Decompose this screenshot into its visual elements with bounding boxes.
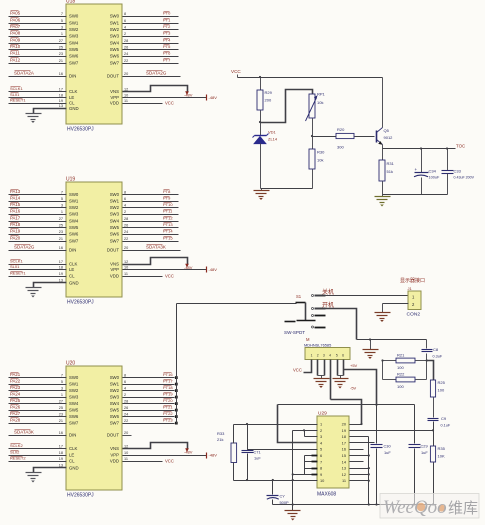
svg-text:SL02: SL02 [10,449,20,454]
svg-text:SW0: SW0 [110,375,120,380]
svg-text:RP1: RP1 [317,92,326,97]
svg-text:SW2: SW2 [110,205,120,210]
svg-text:SW0: SW0 [69,14,79,19]
svg-text:R31: R31 [387,161,395,166]
svg-text:PA08: PA08 [10,30,21,35]
wire guanji to CON2 pin1 [315,295,409,297]
svg-text:DOUT: DOUT [107,74,120,79]
U18 VNS wire pin 12 with -48V arrow [123,86,188,93]
svg-text:R29: R29 [265,90,273,95]
svg-text:9012: 9012 [384,135,394,140]
U29 pin5 wire [248,449,318,451]
module pin 1 wire to VCC [304,360,312,373]
svg-text:SW2: SW2 [69,205,79,210]
svg-text:RESET2: RESET2 [10,455,26,460]
svg-text:22: 22 [124,237,128,241]
svg-text:PT12: PT12 [163,215,173,220]
svg-text:SW4: SW4 [69,401,79,406]
svg-text:9: 9 [320,472,322,477]
svg-text:19: 19 [59,457,63,461]
svg-text:SW7: SW7 [110,421,120,426]
junction C9 MAX pin19 row [432,429,434,431]
svg-text:27: 27 [59,39,63,43]
svg-text:SDATA3K: SDATA3K [14,429,34,434]
svg-text:SW5: SW5 [110,47,120,52]
svg-text:100: 100 [397,384,404,389]
svg-text:21: 21 [59,59,63,63]
U20 CLK LE CL wires pins 17 18 19 [9,448,67,450]
svg-text:PT7: PT7 [163,57,171,62]
svg-text:6: 6 [124,380,126,384]
svg-text:SW3: SW3 [69,212,79,217]
svg-text:12: 12 [124,444,128,448]
junction C8 R21 [426,359,428,361]
svg-text:PT1: PT1 [163,17,171,22]
switch right contacts [312,295,314,297]
svg-text:VCC: VCC [165,458,174,463]
U19 ground symbol [26,287,42,289]
svg-text:VNS: VNS [110,89,119,94]
module pin 4 wire down to MAX pin20 net [330,360,332,400]
svg-text:16: 16 [59,72,63,76]
U18 left input wires [9,16,67,18]
svg-text:16: 16 [59,246,63,250]
svg-text:CL: CL [69,101,75,106]
svg-text:25: 25 [59,406,63,410]
svg-text:CL: CL [69,274,75,279]
svg-text:13: 13 [342,466,346,471]
svg-text:4: 4 [124,203,126,207]
svg-text:1: 1 [61,32,63,36]
svg-text:SW3: SW3 [110,34,120,39]
svg-text:1: 1 [61,393,63,397]
svg-text:SW7: SW7 [69,61,79,66]
U18 VPP wire pin 10 with -48V power bar [123,97,207,99]
svg-text:SW3: SW3 [69,34,79,39]
capacitor C30 1uF on +5V branch [376,405,378,444]
svg-text:SW2: SW2 [69,388,79,393]
svg-text:23: 23 [59,230,63,234]
svg-text:-5V: -5V [350,386,357,391]
svg-text:28: 28 [124,39,128,43]
U29 pin1 wire from R33 node [234,424,318,426]
svg-text:24: 24 [124,230,128,234]
svg-text:PA09: PA09 [10,37,21,42]
U18 GND wire pin 13 [34,109,67,114]
svg-text:SW4: SW4 [69,219,79,224]
svg-text:SDATA2A: SDATA2A [14,70,34,75]
svg-text:5: 5 [61,19,63,23]
wire +5V rail horizontal [278,404,415,406]
svg-text:6: 6 [342,354,344,358]
svg-text:22: 22 [124,419,128,423]
svg-text:VNS: VNS [110,262,119,267]
svg-text:SDATA3K: SDATA3K [146,244,166,249]
wire -5V to MAX pin 20 [331,400,362,425]
svg-text:SW2: SW2 [69,27,79,32]
svg-text:SW3: SW3 [110,212,120,217]
svg-text:R21: R21 [397,353,405,358]
svg-text:VCC: VCC [293,368,302,373]
svg-text:25: 25 [59,223,63,227]
wire down to R35 [433,431,435,447]
svg-text:C8: C8 [433,347,439,352]
svg-text:LE: LE [69,453,74,458]
svg-text:PT11: PT11 [163,208,173,213]
svg-text:SW4: SW4 [110,401,120,406]
svg-text:R25: R25 [438,380,446,385]
U29 right pin20 wire [350,424,362,426]
wire +5V rail down to MAX pin4 [278,405,318,443]
ground at CON2 pin2 [382,304,384,313]
step wire R29 node to RP1 top [261,90,313,123]
node R29 top [259,76,261,78]
svg-text:18: 18 [59,93,63,97]
svg-text:SW3: SW3 [110,395,120,400]
svg-text:1: 1 [311,354,313,358]
ground at bottom rail [292,505,294,511]
svg-text:PA17: PA17 [10,215,21,220]
svg-text:SW7: SW7 [110,239,120,244]
svg-text:M: M [306,337,310,342]
wire ground to CON2 pin2 [383,303,409,305]
svg-text:SW2: SW2 [110,27,120,32]
svg-text:SW4: SW4 [69,41,79,46]
svg-text:SW6: SW6 [110,232,120,237]
wire kaiji to regulator area [315,309,357,340]
svg-text:SW1: SW1 [69,21,79,26]
svg-text:2: 2 [124,393,126,397]
output wire TOC [383,148,456,150]
U20 DIN wire pin 16 [9,435,67,437]
U19 VNS wire pin 12 with -48V arrow [123,258,188,265]
svg-text:3: 3 [61,203,63,207]
potentiometer RP1 10k [309,94,315,118]
svg-text:-48V: -48V [209,452,218,457]
U20 VPP wire pin 10 with -48V power bar [123,455,207,457]
svg-text:SW6: SW6 [69,232,79,237]
svg-text:PT19: PT19 [163,391,173,396]
U19 right output wires [123,194,179,196]
svg-text:GND: GND [69,466,79,471]
svg-text:2: 2 [317,354,319,358]
svg-text:12: 12 [124,87,128,91]
svg-text:MAX608: MAX608 [317,492,336,498]
svg-text:10k: 10k [317,100,323,105]
svg-text:维库: 维库 [448,500,478,517]
U18 VDD wire pin 11 with VCC label [123,103,163,105]
svg-text:1uF: 1uF [384,450,391,455]
svg-text:12: 12 [124,260,128,264]
U29 right pin15 wire [350,455,369,457]
svg-text:13: 13 [59,104,63,108]
svg-text:15: 15 [342,453,346,458]
resistor R29 200 [257,90,263,110]
svg-text:SW5: SW5 [69,225,79,230]
U29 right pin12 wire [350,474,369,476]
svg-text:6: 6 [124,19,126,23]
module ground A [314,378,330,380]
svg-text:C29: C29 [421,444,428,449]
svg-text:SW0: SW0 [69,375,79,380]
svg-text:PA14: PA14 [10,195,21,200]
resistor R30 10k [309,149,315,169]
svg-text:-48V: -48V [209,267,218,272]
svg-text:11: 11 [124,99,128,103]
U29 right pin18 wire to collector vertical [350,436,369,438]
WeeQoo watermark [380,494,479,519]
svg-text:27: 27 [59,217,63,221]
svg-text:关机: 关机 [322,288,334,296]
U20 right output wires [123,377,175,379]
svg-text:3: 3 [61,386,63,390]
U29 pin 2 wire [293,430,318,432]
svg-text:5: 5 [61,197,63,201]
svg-text:HV26530PJ: HV26530PJ [67,300,94,306]
wire R30 to bottom rail [312,170,314,189]
U29 right pin13 wire [350,468,369,470]
svg-text:DOUT: DOUT [107,248,120,253]
svg-text:ZL14: ZL14 [268,137,278,142]
svg-text:SW1: SW1 [110,21,120,26]
svg-text:SW0: SW0 [69,192,79,197]
svg-text:SW7: SW7 [69,239,79,244]
U19 DIN wire pin 16 [9,250,67,252]
svg-text:17: 17 [59,87,63,91]
svg-text:SDATA2G: SDATA2G [146,70,167,75]
U29 right pin11 wire [350,480,369,482]
capacitor C9 0.1uF [428,418,439,420]
capacitor C33 0.43uF 200V [447,149,449,171]
svg-text:WeeQoo: WeeQoo [383,497,447,518]
wire R29 to VD1 node [260,111,262,136]
U18 right output wires [123,16,179,18]
svg-text:SW0: SW0 [110,14,120,19]
svg-text:PT0: PT0 [163,10,171,15]
svg-text:DIN: DIN [69,248,76,253]
wire kaiji horizontal to C8 branch [357,339,427,341]
U20 GND wire pin 13 [34,468,67,473]
svg-text:24: 24 [124,412,128,416]
bus wire to switch common [177,303,297,305]
svg-text:26: 26 [124,45,128,49]
svg-text:25: 25 [59,45,63,49]
wire R33 top to pin1 rail [233,425,235,444]
resistor R25 100 [430,380,435,397]
U29 pin3 wire [304,431,306,437]
svg-text:PA16: PA16 [10,208,21,213]
U20 VNS wire pin 12 with -48V arrow [123,443,188,450]
svg-text:28: 28 [124,399,128,403]
svg-text:11: 11 [124,272,128,276]
svg-text:C30: C30 [384,444,392,449]
svg-text:VPP: VPP [110,95,119,100]
svg-text:5: 5 [336,354,338,358]
svg-text:10: 10 [124,93,128,97]
svg-text:CLK: CLK [69,262,77,267]
module pins 5 6 to ground [337,360,339,376]
capacitor C34 100uF electrolytic [421,149,423,173]
U18 ground symbol [26,113,42,115]
svg-text:PT3: PT3 [163,30,171,35]
svg-text:SW1: SW1 [110,382,120,387]
svg-text:PA20: PA20 [10,235,21,240]
svg-text:DIN: DIN [69,74,76,79]
svg-text:1: 1 [320,422,322,427]
wire VCC to R29 [260,78,262,91]
svg-text:13: 13 [59,278,63,282]
svg-text:13: 13 [59,463,63,467]
module pins 2 3 to ground [317,360,319,376]
svg-text:21: 21 [59,419,63,423]
svg-text:4: 4 [329,354,331,358]
svg-text:SW1: SW1 [69,382,79,387]
svg-text:8: 8 [124,373,126,377]
svg-text:23: 23 [59,412,63,416]
svg-text:RESET1: RESET1 [10,270,26,275]
svg-text:23: 23 [59,52,63,56]
svg-text:17: 17 [59,260,63,264]
VCC rail wire [238,77,383,79]
svg-text:-48V: -48V [209,95,218,100]
U29 right pin17 stub [350,442,375,444]
svg-text:SW5: SW5 [69,408,79,413]
svg-text:4: 4 [124,386,126,390]
svg-text:PT6: PT6 [163,50,171,55]
svg-text:SW0: SW0 [110,192,120,197]
U29 right pin14 stub [350,461,364,463]
U20 VDD wire pin 11 with VCC label [123,461,163,463]
svg-text:PT14: PT14 [163,228,173,233]
svg-text:51k: 51k [387,169,393,174]
svg-text:HV26530PJ: HV26530PJ [67,493,94,499]
wire R33 bottom to pin10 net [233,463,235,481]
wire VD1 to ground rail [260,144,262,189]
svg-text:VCC: VCC [165,273,174,278]
svg-text:26: 26 [124,406,128,410]
svg-text:R20: R20 [337,127,345,132]
svg-text:2: 2 [124,32,126,36]
svg-text:SW6: SW6 [110,54,120,59]
U20 DOUT wire pin 20 [123,435,132,437]
svg-text:VD1: VD1 [268,130,277,135]
U29 pin10 wire from R33 C71 bottom [234,480,318,482]
svg-text:1uF: 1uF [254,456,261,461]
svg-text:PT17: PT17 [163,378,173,383]
svg-text:PA12: PA12 [10,57,21,62]
svg-text:SDATA2G: SDATA2G [14,244,35,249]
svg-text:+: + [415,167,418,172]
svg-text:21k: 21k [217,437,223,442]
U29 right pin16 stub [350,449,364,451]
resistor R31 51k [379,160,385,181]
resistor R22 100 [383,379,397,381]
svg-text:3: 3 [320,434,322,439]
svg-text:LE: LE [69,267,74,272]
transistor Q5 9012 PNP [376,131,378,143]
svg-text:PA28: PA28 [10,417,21,422]
svg-text:SW7: SW7 [69,421,79,426]
svg-text:GND: GND [69,281,79,286]
svg-text:5: 5 [61,380,63,384]
svg-text:PA06: PA06 [10,17,21,22]
svg-text:PA26: PA26 [10,404,21,409]
svg-text:16: 16 [59,431,63,435]
svg-text:RESET1: RESET1 [10,97,26,102]
resistor R20 300 [336,133,354,138]
svg-text:显示器接口: 显示器接口 [400,277,425,284]
svg-text:C34: C34 [429,168,437,173]
svg-text:GND: GND [69,106,79,111]
U19 VPP wire pin 10 with -48V power bar [123,269,207,271]
svg-text:CLK: CLK [69,446,77,451]
wire C8 node down to R22 corner [426,361,428,380]
svg-text:3: 3 [323,354,325,358]
U19 VDD wire pin 11 with VCC label [123,276,163,278]
svg-text:MDHNSL76585: MDHNSL76585 [304,343,331,348]
svg-text:C33: C33 [454,168,462,173]
svg-text:7: 7 [61,190,63,194]
svg-text:16: 16 [342,447,346,452]
vertical collector wire pins 18 15 13 12 11 [368,437,370,505]
svg-text:200: 200 [265,98,272,103]
svg-text:SW-SPDT: SW-SPDT [284,330,305,335]
svg-text:Q5: Q5 [384,128,390,133]
wire Q5 collector to output node [382,145,384,149]
wire R35 to bottom rail [433,463,435,505]
wire RP1 to node [312,119,314,150]
svg-text:PA05: PA05 [10,10,21,15]
svg-text:19: 19 [59,272,63,276]
svg-text:0.1uF: 0.1uF [441,424,451,428]
U19 GND wire pin 13 [34,283,67,288]
U19 CLK LE CL wires pins 17 18 19 [9,264,67,266]
svg-text:17: 17 [342,440,346,445]
svg-text:-48V: -48V [184,450,193,455]
svg-text:8: 8 [124,12,126,16]
svg-text:S1: S1 [296,294,302,299]
bottom rail of output filter [383,194,448,196]
svg-text:1: 1 [61,210,63,214]
zener diode VD1 ZL14 [255,135,267,137]
svg-text:3: 3 [61,25,63,29]
svg-text:10: 10 [124,265,128,269]
wire R25 to C9 [433,398,435,418]
svg-text:VPP: VPP [110,267,119,272]
svg-text:LE: LE [69,95,74,100]
svg-text:17: 17 [59,444,63,448]
ground below Q5 output [382,195,384,197]
svg-text:2: 2 [320,428,322,433]
svg-text:26: 26 [124,223,128,227]
svg-text:SCLK1: SCLK1 [10,258,23,263]
svg-text:27: 27 [59,399,63,403]
svg-text:7: 7 [61,373,63,377]
svg-text:VCC: VCC [231,69,241,74]
svg-text:6: 6 [320,453,322,458]
svg-text:HV26530PJ: HV26530PJ [67,127,94,133]
svg-text:SW4: SW4 [110,41,120,46]
svg-text:SW6: SW6 [110,414,120,419]
svg-text:11: 11 [124,457,128,461]
U29 pins 6-9 joined stubs [304,456,306,475]
svg-text:SW2: SW2 [110,388,120,393]
svg-text:PA22: PA22 [10,378,21,383]
svg-text:SW7: SW7 [110,61,120,66]
svg-text:18: 18 [59,265,63,269]
svg-text:VDD: VDD [110,101,119,106]
svg-text:8: 8 [320,466,322,471]
